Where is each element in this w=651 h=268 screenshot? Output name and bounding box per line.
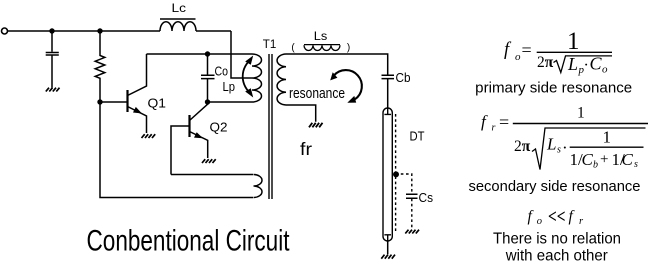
svg-text:r: r — [579, 216, 584, 227]
svg-text:L: L — [546, 135, 556, 154]
transistor Q2 — [190, 102, 208, 158]
secondary winding — [277, 54, 286, 105]
formula fr — [481, 105, 648, 171]
svg-text:(: ( — [291, 42, 295, 53]
svg-text:Lc: Lc — [172, 3, 187, 15]
feedback winding — [254, 175, 263, 198]
svg-text:b: b — [593, 160, 598, 171]
svg-text:Q2: Q2 — [210, 121, 228, 135]
svg-text:with each other: with each other — [505, 247, 609, 264]
svg-text:·: · — [562, 138, 568, 157]
svg-text:Cb: Cb — [396, 71, 411, 85]
svg-text:f: f — [481, 112, 488, 131]
input terminal — [2, 28, 8, 34]
capacitor C-in — [46, 31, 59, 88]
svg-text:L: L — [567, 54, 578, 74]
capacitor Cb — [382, 75, 395, 108]
svg-text:<<: << — [548, 207, 566, 228]
rotation arrow secondary — [330, 70, 362, 103]
ground (tube) — [381, 255, 395, 259]
svg-text:1: 1 — [567, 28, 580, 55]
svg-text:secondary side resonance: secondary side resonance — [469, 178, 641, 195]
wire primary top lead — [147, 53, 253, 55]
wire secondary bottom — [286, 105, 316, 122]
svg-text:f: f — [528, 208, 535, 225]
wire tube bottom — [387, 241, 389, 254]
svg-text:r: r — [492, 123, 496, 134]
ground (Q2 emitter) — [202, 159, 216, 163]
dashed stray capacitance line — [395, 114, 397, 231]
svg-text:=: = — [499, 112, 509, 132]
junction node A — [49, 28, 54, 33]
junction Co bottom — [205, 99, 210, 104]
svg-text:DT: DT — [410, 129, 425, 144]
primary winding Lp — [252, 54, 262, 102]
resistor R — [95, 31, 105, 102]
formula fo much less than fr — [528, 207, 585, 228]
capacitor Cs — [406, 194, 418, 198]
junction stray node — [393, 171, 399, 177]
svg-text:primary side resonance: primary side resonance — [475, 80, 632, 97]
svg-text:Cs: Cs — [419, 191, 434, 205]
wire Q1 base — [100, 101, 128, 103]
junction base Q1 — [97, 99, 102, 104]
svg-text:f: f — [569, 208, 576, 225]
transistor Q1 — [128, 54, 147, 133]
svg-text:Ls: Ls — [314, 31, 328, 43]
svg-text:T1: T1 — [263, 39, 277, 51]
discharge tube DT — [383, 108, 392, 241]
svg-text:+: + — [600, 152, 608, 168]
svg-text:There is no relation: There is no relation — [493, 231, 621, 248]
dashed wire to Cs — [396, 174, 412, 194]
svg-text:s: s — [634, 159, 638, 170]
ground (secondary) — [309, 123, 323, 128]
svg-text:): ) — [347, 42, 350, 53]
svg-text:C: C — [622, 150, 634, 169]
svg-text:o: o — [537, 216, 542, 227]
svg-text:Co: Co — [215, 65, 229, 79]
svg-text:fr: fr — [300, 139, 312, 159]
transformer core T1 — [269, 54, 272, 199]
ground (Cs) — [405, 230, 419, 234]
svg-text:o: o — [515, 51, 521, 63]
wire primary bottom lead — [208, 101, 253, 103]
svg-text:1: 1 — [577, 105, 585, 122]
svg-text:s: s — [557, 145, 561, 156]
svg-text:Lp: Lp — [223, 80, 236, 94]
dashed wire Cs ground — [411, 199, 413, 229]
svg-text:=: = — [522, 40, 532, 60]
svg-text:C: C — [582, 150, 594, 169]
svg-text:2π: 2π — [514, 138, 531, 155]
svg-text:Conbentional Circuit: Conbentional Circuit — [87, 225, 290, 258]
formula fo — [504, 28, 612, 76]
ground (Q1 emitter) — [142, 134, 156, 138]
wire feedback loop — [100, 102, 253, 198]
wire Q2 base — [171, 126, 190, 175]
ground (input cap) — [46, 88, 60, 92]
svg-text:2π: 2π — [537, 54, 554, 71]
capacitor Co — [201, 54, 215, 102]
junction Co top — [205, 51, 210, 56]
junction node B — [97, 28, 102, 33]
inductor Lc — [160, 22, 196, 31]
svg-text:resonance: resonance — [289, 86, 345, 102]
svg-text:C: C — [590, 54, 603, 74]
wire secondary top — [286, 54, 388, 75]
svg-text:f: f — [504, 40, 512, 60]
svg-text:o: o — [602, 64, 608, 76]
svg-text:Q1: Q1 — [148, 97, 167, 111]
svg-text:·: · — [584, 57, 589, 74]
wire center tap — [231, 31, 252, 78]
wire top rail — [8, 30, 231, 32]
svg-text:1: 1 — [603, 128, 612, 147]
resonance arrow primary — [243, 56, 254, 98]
leakage inductor Ls — [304, 45, 340, 51]
